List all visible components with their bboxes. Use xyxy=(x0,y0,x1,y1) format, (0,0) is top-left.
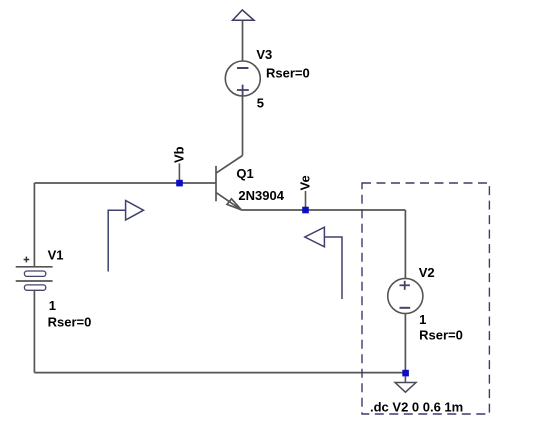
wire: base xyxy=(34,182,216,184)
voltage source V3 (circle, minus top, plus bottom) xyxy=(225,61,260,96)
transistor Q1 (NPN 2N3904) xyxy=(216,156,243,210)
wire: battery bottom to ground rail xyxy=(33,290,35,372)
svg-text:.dc V2 0 0.6 1m: .dc V2 0 0.6 1m xyxy=(370,399,463,414)
battery V1 xyxy=(16,257,53,291)
svg-text:Rser=0: Rser=0 xyxy=(48,315,92,330)
svg-text:5: 5 xyxy=(257,95,264,110)
node Ve (leader, junction square, label) xyxy=(297,175,312,213)
wire: node to ground symbol xyxy=(404,376,406,382)
junction node (bottom rail / V2 / ground) xyxy=(402,370,409,377)
wire: left vertical (base loop down to battery) xyxy=(33,183,35,267)
svg-text:V1: V1 xyxy=(48,247,64,262)
annotation arrow right (base current) xyxy=(108,201,143,272)
svg-text:1: 1 xyxy=(49,298,56,313)
svg-text:V3: V3 xyxy=(256,47,272,62)
ground xyxy=(395,383,416,393)
svg-text:1: 1 xyxy=(419,312,426,327)
dashed box (sweep source region) xyxy=(362,183,489,414)
power flag (V3 top supply) xyxy=(233,10,254,20)
node Vb (leader, junction square, label) xyxy=(171,146,186,186)
wire: Ve to V2 top xyxy=(404,210,406,278)
svg-text:Rser=0: Rser=0 xyxy=(266,66,310,81)
svg-text:V2: V2 xyxy=(419,265,435,280)
svg-text:2N3904: 2N3904 xyxy=(238,188,284,203)
voltage source V2 (circle, plus top, minus bottom) xyxy=(388,278,423,313)
svg-text:Rser=0: Rser=0 xyxy=(419,328,463,343)
annotation arrow left (emitter current) xyxy=(305,227,342,299)
svg-text:Ve: Ve xyxy=(297,175,312,190)
wire: power flag to V3 top xyxy=(242,20,244,61)
wire: V2 bottom to ground node xyxy=(404,314,406,373)
svg-text:Q1: Q1 xyxy=(236,166,253,181)
wire: emitter run to V2 xyxy=(241,209,405,211)
svg-text:Vb: Vb xyxy=(171,146,186,163)
wire: bottom rail xyxy=(34,372,405,374)
wire: V3 bottom to collector xyxy=(242,96,244,156)
